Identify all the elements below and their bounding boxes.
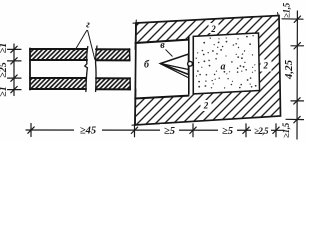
concrete stipple dots	[196, 35, 257, 89]
anchor inner rod line	[161, 64, 189, 78]
right chain tick slashes	[294, 16, 301, 123]
pipe break line right	[96, 46, 97, 92]
embedded plate (double line)	[189, 36, 194, 94]
svg-text:≥2,5: ≥2,5	[254, 126, 269, 136]
leader line from v	[166, 50, 173, 57]
wall left face (below pipe)	[134, 89, 137, 125]
svg-text:в: в	[160, 40, 165, 51]
pipe bottom bar left segment	[30, 78, 86, 89]
bottom chain tick slashes	[28, 127, 279, 134]
niche top edge	[136, 40, 189, 43]
svg-text:г: г	[86, 20, 90, 31]
pipe top bar right segment	[96, 49, 130, 60]
svg-text:2: 2	[210, 24, 216, 34]
anchor triangle	[161, 54, 189, 75]
pipe break line left	[85, 47, 88, 92]
dim text >=5 (right)	[218, 124, 237, 137]
left dim chain line	[13, 44, 15, 96]
wall corner overshoots	[132, 13, 279, 126]
svg-text:≥45: ≥45	[80, 126, 96, 137]
label white boxes in hatch	[201, 23, 272, 111]
svg-text:4,25: 4,25	[283, 59, 295, 80]
svg-text:а: а	[221, 62, 226, 73]
right chain extension strokes	[282, 19, 304, 120]
left chain tick slashes	[11, 46, 17, 93]
dim text >=45	[74, 124, 102, 137]
svg-text:2: 2	[263, 61, 269, 71]
svg-text:≥1,5: ≥1,5	[281, 122, 291, 138]
wall left face (above pipe)	[134, 23, 137, 49]
bottom dim chain line	[26, 129, 284, 131]
svg-text:≥5: ≥5	[164, 126, 175, 137]
svg-text:≥25: ≥25	[0, 62, 9, 78]
dim text >=2,5	[251, 125, 271, 136]
concrete block outline	[193, 33, 259, 94]
svg-text:≥1: ≥1	[0, 43, 9, 54]
pipe bottom bar right segment	[96, 78, 130, 89]
svg-text:≥1: ≥1	[0, 86, 9, 97]
svg-text:≥5: ≥5	[222, 126, 233, 137]
wall outline	[135, 16, 281, 126]
svg-text:б: б	[144, 60, 150, 71]
pipe left end cap	[29, 48, 31, 89]
svg-text:2: 2	[203, 101, 209, 111]
leader lines from g	[75, 30, 96, 60]
pipe top bar left segment	[30, 49, 87, 60]
niche bottom edge	[135, 96, 188, 99]
svg-text:≥1,5: ≥1,5	[282, 2, 292, 18]
anchor rod circle	[188, 61, 193, 66]
pipe right end caps	[129, 49, 132, 90]
left chain extension strokes	[8, 49, 22, 89]
dim text >=5 (left)	[160, 124, 179, 137]
bottom chain extension strokes	[31, 124, 276, 137]
wall hatched body (with niche + block holes)	[135, 16, 281, 126]
right dim chain line	[296, 11, 298, 139]
